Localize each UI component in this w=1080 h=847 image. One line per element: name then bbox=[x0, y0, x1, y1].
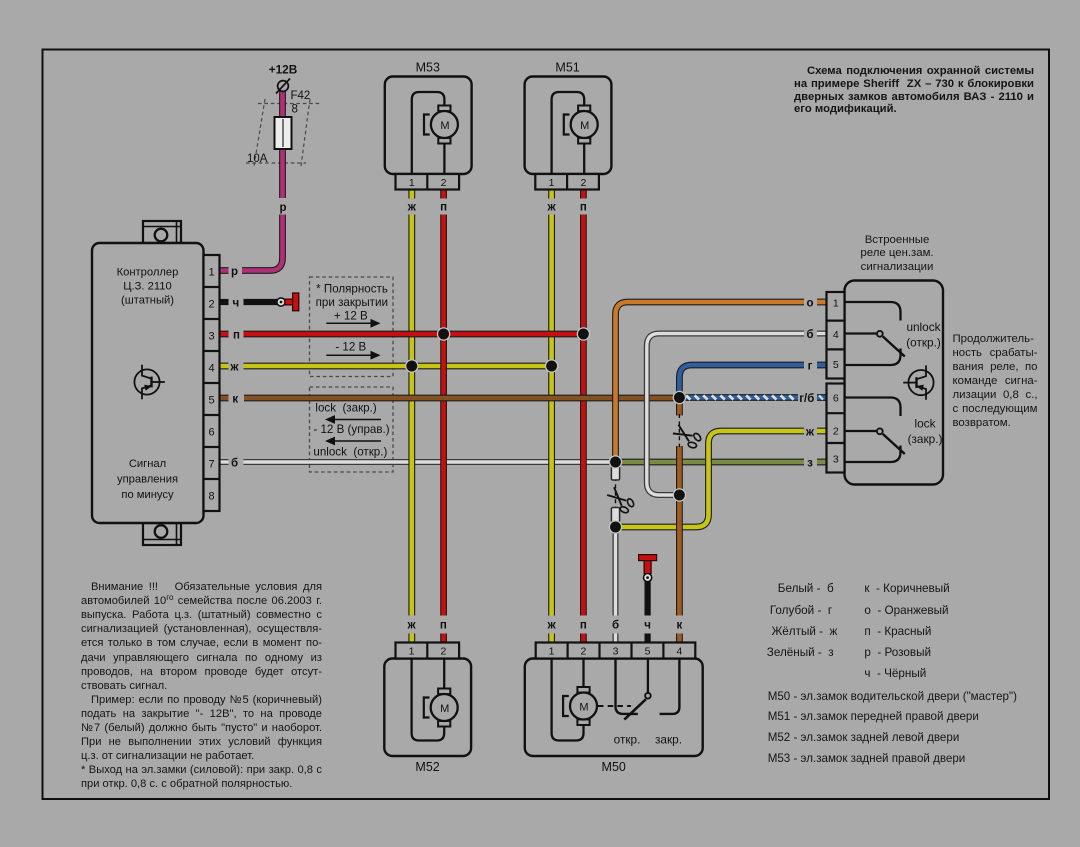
connector stub lower on white wire bbox=[611, 508, 619, 523]
junction yellow x yellow left bbox=[406, 360, 418, 372]
svg-text:б: б bbox=[806, 329, 813, 341]
M50 contact otkr. (pin 3 hook) bbox=[616, 659, 638, 714]
relay box of alarm central lock bbox=[845, 281, 944, 485]
wire p vertical right upper stub bbox=[580, 190, 587, 199]
svg-text:1: 1 bbox=[549, 177, 555, 189]
wire zh vertical left upper stub bbox=[408, 190, 415, 199]
svg-text:- 12 В (управ.): - 12 В (управ.) bbox=[313, 423, 389, 436]
wire r (pink) upper part bbox=[279, 91, 286, 198]
svg-text:8: 8 bbox=[292, 104, 298, 116]
svg-text:Сигнал: Сигнал bbox=[129, 458, 166, 470]
door lock actuator M50 (master) bbox=[525, 659, 703, 757]
svg-text:5: 5 bbox=[208, 395, 214, 407]
junction red x red left bbox=[438, 328, 450, 340]
wire zh (yellow) from controller pin 4 bbox=[244, 363, 552, 370]
fuse F42 body bbox=[275, 117, 292, 149]
wire z (green) to relay pin 3 bbox=[616, 459, 805, 466]
svg-text:2: 2 bbox=[441, 177, 447, 189]
svg-text:1: 1 bbox=[409, 646, 415, 658]
wire p (red) from controller pin 3 bbox=[244, 331, 584, 338]
svg-text:3: 3 bbox=[833, 454, 839, 466]
svg-text:(закр.): (закр.) bbox=[908, 432, 943, 446]
connector stub upper on white wire bbox=[611, 466, 619, 481]
wire k (brown) from controller pin 5 bbox=[244, 395, 679, 402]
svg-text:откр.: откр. bbox=[614, 733, 641, 747]
svg-text:М50: М50 bbox=[602, 760, 626, 774]
wire k (brown) vertical lower stub bbox=[676, 634, 683, 643]
wire p stub at controller pin 3 bbox=[220, 331, 229, 338]
junction brown/blue/gb node bbox=[673, 391, 685, 403]
svg-text:о: о bbox=[806, 298, 813, 310]
svg-text:4: 4 bbox=[833, 329, 839, 341]
M53 pin strip bbox=[396, 174, 460, 190]
junction yellow/white node bbox=[609, 521, 621, 533]
cut point (scissors) on white wire bbox=[605, 485, 637, 516]
svg-text:10А: 10А bbox=[247, 153, 268, 165]
wire g (blue) from relay pin 5 bbox=[679, 365, 804, 398]
black ch wire from M50 pin 5 with bullet connector and red terminal bbox=[639, 555, 657, 643]
svg-text:закр.: закр. bbox=[655, 733, 682, 747]
svg-text:(штатный): (штатный) bbox=[121, 295, 174, 307]
svg-text:п: п bbox=[580, 202, 587, 214]
wire g/b stub at relay pin 6 bbox=[817, 395, 827, 399]
junction orange/green/white node bbox=[609, 456, 621, 468]
svg-text:ж: ж bbox=[229, 362, 239, 374]
relay caption bbox=[846, 234, 948, 275]
wire zh vertical right lower stub bbox=[548, 634, 555, 643]
M51 internal loop wire bbox=[552, 92, 585, 174]
wire o (orange) from relay pin 1 bbox=[616, 302, 805, 462]
svg-text:lock (закр.): lock (закр.) bbox=[315, 402, 376, 415]
wire g stub at relay pin 5 bbox=[817, 362, 827, 369]
svg-text:М: М bbox=[440, 120, 449, 132]
svg-text:ж: ж bbox=[407, 620, 417, 632]
svg-text:п: п bbox=[580, 620, 587, 632]
wire b stub at controller pin 7 bbox=[220, 459, 229, 465]
arrow left lock bbox=[325, 415, 381, 424]
svg-text:з: з bbox=[807, 458, 813, 470]
relay transistor symbol bbox=[903, 365, 933, 399]
junction yellow x yellow right bbox=[546, 360, 558, 372]
cut dashes on white wire bbox=[615, 477, 617, 510]
svg-text:6: 6 bbox=[208, 427, 214, 439]
wire r stub at controller pin 1 bbox=[220, 267, 229, 274]
svg-text:М: М bbox=[440, 703, 449, 715]
wire b (white) from relay pin 4 bbox=[647, 334, 804, 496]
cut point (scissors) on brown wire bbox=[671, 422, 703, 451]
wire b (white) vertical from M50 pin 3 upper bbox=[613, 527, 619, 616]
controller mounting tab bottom bbox=[143, 523, 181, 545]
svg-text:2: 2 bbox=[580, 177, 586, 189]
wire p vertical right lower stub bbox=[580, 634, 587, 643]
motor symbol M51 bbox=[564, 106, 598, 144]
svg-text:unlock: unlock bbox=[906, 320, 940, 334]
svg-text:р: р bbox=[279, 202, 286, 214]
svg-text:3: 3 bbox=[613, 646, 619, 658]
M51 pin strip bbox=[535, 174, 599, 190]
relay pin column group 2 (pins 6,2,3) bbox=[827, 384, 845, 473]
svg-text:б: б bbox=[612, 620, 619, 632]
svg-text:6: 6 bbox=[833, 393, 839, 405]
svg-text:ж: ж bbox=[547, 620, 557, 632]
M50 internal loop wire bbox=[552, 659, 584, 741]
svg-text:4: 4 bbox=[208, 363, 214, 375]
relay lock switch bbox=[845, 398, 901, 417]
door lock actuator M51 bbox=[525, 77, 612, 175]
svg-text:г: г bbox=[808, 361, 813, 373]
title text bbox=[794, 65, 1034, 116]
svg-text:1: 1 bbox=[208, 267, 214, 279]
svg-text:1: 1 bbox=[549, 646, 555, 658]
svg-text:М51: М51 bbox=[555, 61, 579, 75]
M50 pin strip pins 1 2 3 5 4 bbox=[536, 643, 696, 659]
svg-text:М: М bbox=[580, 120, 589, 132]
black ch wire from controller pin 2 with bullet connector and red terminal bbox=[220, 293, 299, 311]
svg-text:М: М bbox=[579, 701, 588, 713]
svg-text:ж: ж bbox=[805, 427, 815, 439]
right side note bbox=[953, 332, 1038, 431]
svg-text:при закрытии: при закрытии bbox=[316, 296, 388, 309]
svg-text:к: к bbox=[232, 394, 238, 406]
wire zh vertical right upper stub bbox=[548, 190, 555, 199]
svg-text:5: 5 bbox=[833, 359, 839, 371]
svg-text:2: 2 bbox=[580, 646, 586, 658]
wire k (brown) vertical from M50 pin 4 bbox=[676, 446, 683, 616]
svg-text:5: 5 bbox=[645, 646, 651, 658]
svg-text:б: б bbox=[231, 458, 238, 470]
wire zh stub at controller pin 4 bbox=[220, 363, 229, 370]
wire b (white) from controller pin 7 bbox=[244, 459, 616, 465]
wire k stub at controller pin 5 bbox=[220, 395, 229, 402]
svg-text:lock: lock bbox=[915, 417, 936, 431]
svg-text:2: 2 bbox=[833, 426, 839, 438]
svg-text:1: 1 bbox=[409, 177, 415, 189]
svg-text:7: 7 bbox=[208, 459, 214, 471]
wire g/b (blue/white striped) to relay pin 6 bbox=[679, 395, 798, 399]
junction white/brown node bbox=[673, 489, 685, 501]
wire p vertical right bbox=[580, 215, 587, 616]
wire r (pink) lower part bbox=[242, 215, 283, 271]
wire b (white) vertical from M50 pin 3 lower stub bbox=[613, 634, 619, 643]
svg-text:Ц.З. 2110: Ц.З. 2110 bbox=[123, 281, 171, 293]
svg-text:к: к bbox=[677, 620, 683, 632]
wire p vertical left lower stub bbox=[440, 634, 447, 643]
svg-text:+12В: +12В bbox=[269, 63, 298, 77]
wire zh stub at relay pin 2 bbox=[817, 428, 827, 435]
svg-text:п: п bbox=[233, 330, 240, 342]
M52 pin strip bbox=[396, 643, 460, 659]
controller pin column pins 1-8 bbox=[204, 255, 220, 511]
svg-text:г/б: г/б bbox=[799, 393, 814, 405]
svg-text:управления: управления bbox=[117, 474, 178, 486]
cut dashes on brown wire bbox=[678, 414, 680, 447]
svg-text:2: 2 bbox=[440, 646, 446, 658]
svg-text:р: р bbox=[231, 266, 238, 278]
M53 internal loop wire bbox=[412, 92, 445, 174]
junction red x red right bbox=[577, 328, 589, 340]
wire zh vertical right bbox=[548, 215, 555, 616]
motor symbol M50 bbox=[563, 687, 597, 725]
wire zh vertical left lower stub bbox=[408, 634, 415, 643]
arrow left unlock bbox=[325, 437, 381, 446]
svg-text:М53: М53 bbox=[416, 61, 440, 75]
relay unlock switch bbox=[845, 302, 901, 321]
svg-text:М52: М52 bbox=[415, 760, 439, 774]
color legend bbox=[778, 583, 834, 595]
svg-text:8: 8 bbox=[208, 491, 214, 503]
svg-text:ч: ч bbox=[232, 298, 239, 310]
fuse F42 dashed outline bbox=[246, 99, 320, 166]
arrow right -12V bbox=[326, 351, 380, 360]
door lock actuator M53 bbox=[385, 77, 472, 175]
wire p vertical left upper stub bbox=[440, 190, 447, 199]
svg-text:1: 1 bbox=[833, 298, 839, 310]
wire p vertical left bbox=[440, 215, 447, 616]
wire o stub at relay pin 1 bbox=[817, 299, 827, 306]
dashed note box: lock/unlock control bbox=[310, 387, 394, 472]
+12V terminal bbox=[276, 79, 290, 94]
controller C.Z.2110 box bbox=[92, 243, 204, 523]
svg-text:(откр.): (откр.) bbox=[906, 336, 941, 350]
M52 internal loop wire bbox=[412, 659, 445, 741]
motor symbol M52 bbox=[424, 689, 458, 727]
svg-text:ж: ж bbox=[547, 202, 557, 214]
svg-text:- 12 В: - 12 В bbox=[335, 341, 366, 354]
svg-text:по минусу: по минусу bbox=[121, 489, 174, 501]
dashed note box: polarity at closing bbox=[310, 277, 394, 377]
wire b stub at relay pin 4 bbox=[817, 331, 827, 337]
door lock actuator M52 bbox=[384, 659, 471, 757]
svg-text:4: 4 bbox=[676, 646, 682, 658]
M50 mechanical link dashed bbox=[598, 705, 631, 707]
svg-text:* Полярность: * Полярность bbox=[316, 283, 388, 296]
wire zh vertical left bbox=[408, 215, 415, 616]
attention note bbox=[81, 580, 322, 791]
relay pin column group 1 (pins 1,4,5) bbox=[827, 292, 845, 379]
controller transistor symbol bbox=[134, 365, 164, 399]
M50 switch blade from pin 5 bbox=[647, 659, 649, 693]
arrow right +12V bbox=[326, 319, 380, 328]
M50 contact zakr. (pin 4 hook) bbox=[660, 659, 680, 714]
svg-text:ч: ч bbox=[644, 620, 651, 632]
svg-text:unlock (откр.): unlock (откр.) bbox=[313, 446, 387, 459]
wire k (brown) vertical upper stub at cut bbox=[676, 399, 683, 416]
svg-text:п: п bbox=[440, 202, 447, 214]
svg-text:ж: ж bbox=[407, 202, 417, 214]
wire z stub at relay pin 3 bbox=[817, 459, 827, 466]
svg-text:3: 3 bbox=[208, 331, 214, 343]
svg-text:F42: F42 bbox=[291, 90, 311, 102]
controller mounting tab top bbox=[143, 221, 181, 243]
motor symbol M53 bbox=[424, 106, 458, 144]
svg-text:2: 2 bbox=[208, 299, 214, 311]
wire zh (yellow) from relay pin 2 bbox=[616, 431, 805, 527]
svg-text:п: п bbox=[440, 620, 447, 632]
svg-text:+ 12 В: + 12 В bbox=[334, 310, 368, 323]
svg-text:Контроллер: Контроллер bbox=[117, 267, 179, 279]
